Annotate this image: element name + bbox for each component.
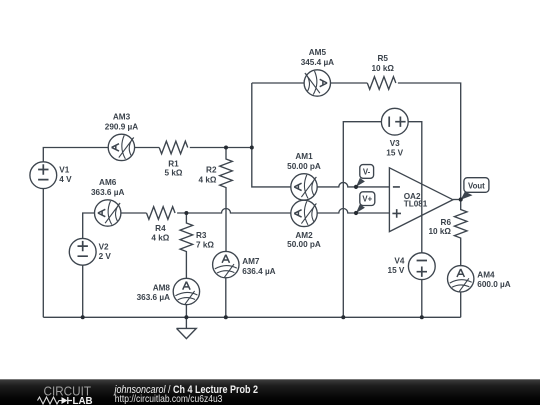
op-amp OA2: [389, 168, 453, 232]
label AM8: [137, 283, 171, 301]
wire AM4 to rail: [460, 291, 462, 317]
svg-text:AM8: AM8: [153, 283, 171, 292]
junction node R1/R2: [224, 146, 228, 150]
CircuitLab logo: [38, 384, 93, 405]
wire AM6 to R4: [121, 212, 147, 214]
junction node R4/R3: [184, 211, 188, 215]
svg-text:V4: V4: [394, 256, 404, 265]
voltage source V1: [30, 162, 57, 189]
svg-text:V+: V+: [362, 195, 372, 204]
voltage source V2: [69, 238, 96, 265]
svg-text:363.6 µA: 363.6 µA: [137, 293, 170, 302]
svg-text:4 kΩ: 4 kΩ: [151, 234, 169, 243]
svg-text:15 V: 15 V: [388, 266, 405, 275]
wire AM5 to R5: [331, 82, 368, 84]
junction node output: [459, 197, 463, 201]
svg-text:http://circuitlab.com/cu6z4u3: http://circuitlab.com/cu6z4u3: [115, 394, 223, 405]
wire AM6 left to V2: [83, 213, 95, 238]
svg-text:V-: V-: [363, 167, 371, 176]
label R1: [165, 159, 183, 177]
svg-text:50.00 pA: 50.00 pA: [287, 240, 321, 249]
wire V4 bottom to rail: [421, 280, 423, 318]
svg-text:AM5: AM5: [309, 48, 327, 57]
label AM1: [287, 152, 321, 171]
svg-text:4 kΩ: 4 kΩ: [199, 175, 217, 184]
svg-text:V2: V2: [99, 243, 109, 252]
svg-text:R4: R4: [155, 224, 166, 233]
svg-text:600.0 µA: 600.0 µA: [477, 280, 510, 289]
svg-text:363.6 µA: 363.6 µA: [91, 188, 124, 197]
junction rail AM7: [224, 315, 228, 319]
svg-text:AM3: AM3: [113, 112, 131, 121]
wire AM2 to op-amp noninverting input with hop: [317, 209, 389, 214]
svg-text:TL081: TL081: [404, 199, 428, 208]
net flag V+: [354, 192, 375, 215]
svg-text:R3: R3: [196, 231, 207, 240]
wire R5 to right rail: [398, 83, 461, 200]
ammeter AM8: [173, 278, 199, 304]
svg-text:10 kΩ: 10 kΩ: [371, 64, 394, 73]
svg-text:AM4: AM4: [477, 270, 495, 279]
wire V1 bottom to rail: [42, 189, 44, 318]
voltage source V3: [381, 108, 408, 135]
resistor R5: [367, 77, 396, 90]
svg-text:15 V: 15 V: [386, 149, 403, 158]
wire top feedback left: [252, 82, 304, 84]
junction rail V2: [81, 315, 85, 319]
svg-text:V3: V3: [390, 139, 400, 148]
label R6: [429, 218, 452, 236]
svg-text:345.4 µA: 345.4 µA: [301, 58, 334, 67]
label V3: [386, 139, 403, 158]
label AM7: [242, 257, 275, 276]
footer title text: [113, 384, 258, 405]
label R4: [151, 224, 169, 243]
svg-text:AM2: AM2: [295, 231, 313, 240]
ground: [177, 317, 197, 338]
label R5: [371, 54, 394, 73]
ammeter AM1: [291, 174, 317, 200]
wire vertical node to AM1: [252, 83, 291, 187]
svg-text:Vout: Vout: [468, 182, 485, 191]
svg-text:LAB: LAB: [73, 396, 93, 405]
wire V1 top to AM3: [43, 148, 108, 162]
wire V3 left leg: [343, 122, 381, 318]
svg-text:7 kΩ: 7 kΩ: [196, 240, 214, 249]
label R2: [199, 166, 217, 185]
ammeter AM5: [304, 70, 330, 96]
wire V3 right leg to V4: [408, 122, 422, 253]
wire R1 to node junction: [190, 147, 252, 149]
label AM5: [301, 48, 334, 67]
svg-text:V1: V1: [59, 166, 69, 175]
label V1: [59, 166, 72, 184]
label V2: [99, 243, 112, 261]
net flag Vout: [461, 178, 489, 200]
label OA2 TL081: [404, 192, 428, 208]
resistor R6: [454, 200, 467, 267]
svg-text:AM7: AM7: [242, 257, 260, 266]
junction node feedback: [250, 146, 254, 150]
resistor R1: [159, 141, 188, 154]
label AM3: [105, 112, 138, 131]
resistor R3: [180, 213, 193, 279]
ammeter AM3: [108, 134, 134, 160]
label AM4: [477, 270, 510, 289]
wire V2 bottom to ground rail: [82, 265, 84, 317]
voltage source V4: [408, 253, 435, 280]
net flag V-: [354, 165, 374, 189]
ammeter AM4: [448, 266, 474, 292]
svg-text:5 kΩ: 5 kΩ: [165, 169, 183, 178]
ammeter AM7: [213, 251, 239, 277]
ammeter AM6: [95, 200, 121, 226]
svg-text:2 V: 2 V: [99, 252, 112, 261]
label V4: [388, 256, 405, 275]
wire AM7 to rail: [225, 278, 227, 318]
label AM6: [91, 178, 124, 197]
footer bar: [0, 379, 540, 405]
svg-text:R5: R5: [377, 54, 388, 63]
svg-text:AM1: AM1: [295, 152, 313, 161]
svg-text:R1: R1: [168, 159, 179, 168]
bottom rail wire: [43, 316, 460, 318]
wire op-amp output: [453, 199, 461, 201]
svg-text:4 V: 4 V: [59, 175, 72, 184]
label R3: [196, 231, 214, 250]
resistor R4: [147, 207, 176, 220]
svg-text:636.4 µA: 636.4 µA: [242, 267, 275, 276]
svg-text:R2: R2: [206, 166, 217, 175]
label AM2: [287, 231, 321, 249]
svg-text:10 kΩ: 10 kΩ: [429, 227, 452, 236]
wire R4 to AM2 with hop over R2 branch: [177, 209, 291, 214]
wire AM8 to rail: [185, 304, 187, 317]
wire AM1 to op-amp inverting input with hop: [317, 182, 389, 187]
ammeter AM2: [291, 200, 317, 226]
junction rail V3: [341, 315, 345, 319]
wire AM3 to R1: [135, 147, 160, 149]
svg-text:AM6: AM6: [99, 178, 117, 187]
svg-text:50.00 pA: 50.00 pA: [287, 162, 321, 171]
svg-text:R6: R6: [441, 218, 452, 227]
resistor R2: [220, 148, 233, 252]
junction rail ground: [184, 315, 188, 319]
junction rail V4: [420, 315, 424, 319]
svg-text:290.9 µA: 290.9 µA: [105, 123, 138, 132]
